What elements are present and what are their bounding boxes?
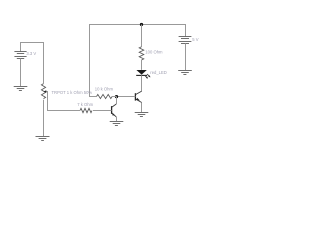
transistor Q1 [135, 91, 141, 102]
svg-text:TRPOT 1 k Ohm 50%: TRPOT 1 k Ohm 50% [52, 90, 93, 95]
resistor 100 Ohm [139, 47, 144, 60]
ground pot [36, 137, 50, 141]
wire pot wiper to 7k [46, 92, 80, 111]
ground Q2 [110, 122, 124, 126]
battery V2 [179, 37, 192, 44]
wire node to Q1 base [117, 96, 136, 98]
wire pot bottom to ground [43, 100, 45, 136]
svg-text:3.3 V: 3.3 V [26, 51, 36, 56]
wire Q1 emitter to ground [141, 103, 143, 113]
ground V2 [178, 71, 192, 75]
wire Q2 emitter to ground [116, 117, 118, 121]
resistor 10 k Ohm [97, 94, 113, 98]
wire battery V2 to ground [185, 44, 187, 71]
node top junction [140, 23, 143, 26]
wire LED to Q1 collector [141, 75, 143, 91]
svg-text:5 V: 5 V [192, 37, 198, 42]
battery V1 [14, 52, 26, 59]
wire battery V1 plus to pot top [21, 43, 44, 84]
svg-text:10 k Ohm: 10 k Ohm [95, 86, 114, 91]
wire node down to Q2 collector [116, 97, 118, 105]
wire battery V1 minus to ground [20, 59, 22, 87]
wire top rail from left branch corner to battery V2 [90, 25, 186, 98]
svg-text:red_LED: red_LED [150, 70, 167, 75]
wire 7k to Q2 base [93, 110, 112, 112]
LED red_LED [136, 70, 150, 79]
resistor 7 k Ohm [80, 108, 92, 112]
wire rail to 10k [90, 96, 98, 98]
potentiometer TRPOT [41, 84, 45, 99]
wire resistor to LED [141, 60, 143, 70]
ground Q1 [135, 113, 149, 117]
node middle junction [115, 95, 118, 98]
svg-text:7 k Ohm: 7 k Ohm [77, 102, 93, 107]
wire LED branch upper [141, 25, 143, 47]
svg-text:100 Ohm: 100 Ohm [145, 50, 163, 55]
ground V1 [14, 87, 28, 91]
transistor Q2 [112, 104, 117, 117]
wire 10k to node [112, 96, 116, 98]
wiper arrow [44, 90, 47, 92]
